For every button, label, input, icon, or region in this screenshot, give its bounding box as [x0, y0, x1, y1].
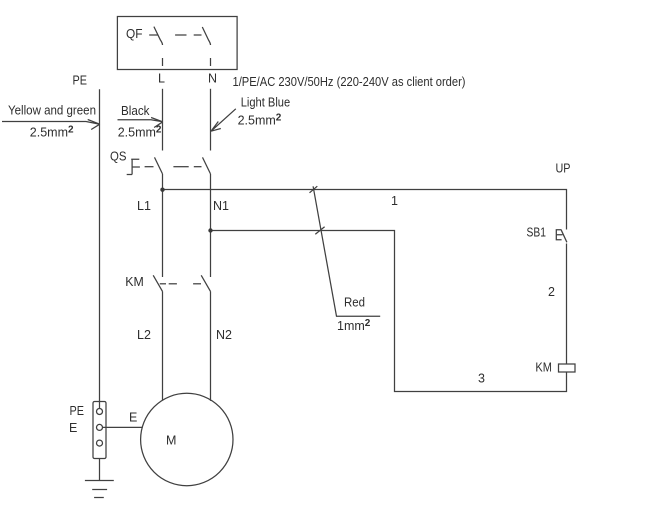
ground symbol bar 1	[85, 480, 114, 482]
svg-text:QF: QF	[126, 27, 143, 41]
svg-text:L1: L1	[137, 199, 151, 213]
red leader arrow tick on wire 1	[310, 186, 318, 193]
svg-text:N2: N2	[216, 328, 232, 342]
svg-text:M: M	[166, 434, 176, 448]
switch QS mechanical link dash 2	[173, 166, 188, 168]
leader arrow for Yellow and green label	[2, 120, 100, 130]
svg-text:UP: UP	[556, 162, 571, 176]
wire L middle segment	[162, 174, 164, 277]
svg-text:2.5mm2: 2.5mm2	[30, 125, 74, 140]
wire L2 to motor	[162, 291, 164, 400]
svg-text:KM: KM	[535, 361, 552, 375]
wire PE vertical	[99, 89, 101, 402]
svg-text:N: N	[208, 72, 217, 86]
PE lead into terminal block	[99, 402, 101, 409]
pushbutton SB1 actuator	[556, 230, 562, 240]
svg-text:E: E	[129, 411, 137, 425]
wire 3 from node N1 to coil return	[211, 231, 567, 392]
red leader arrow tick on wire 3	[315, 227, 324, 234]
leader arrow for Light Blue label	[211, 109, 236, 131]
wire N2 to motor	[210, 291, 212, 401]
switch QS pole L blade	[155, 157, 163, 174]
terminal block screw 3	[97, 440, 103, 446]
svg-text:L2: L2	[137, 328, 151, 342]
svg-text:2.5mm2: 2.5mm2	[118, 125, 162, 140]
wire N middle segment	[210, 174, 212, 277]
svg-text:N1: N1	[213, 199, 229, 213]
svg-text:E: E	[69, 421, 77, 435]
svg-text:KM: KM	[125, 275, 144, 289]
contactor KM mechanical link dash 2	[169, 283, 177, 285]
svg-text:2: 2	[548, 285, 555, 299]
svg-text:SB1: SB1	[527, 226, 547, 240]
node N1 junction dot	[208, 228, 212, 232]
wire E from terminal block to motor	[103, 426, 143, 428]
breaker QF pole L lead-in	[149, 34, 157, 36]
svg-text:Light Blue: Light Blue	[241, 95, 291, 109]
svg-text:Yellow and green: Yellow and green	[8, 104, 96, 118]
breaker QF pole L blade	[154, 27, 163, 45]
ground symbol bar 3	[94, 497, 104, 499]
svg-text:L: L	[158, 72, 165, 86]
contactor KM mechanical link dash 3	[193, 283, 201, 285]
contactor KM mechanical link dash 1	[160, 283, 166, 285]
breaker QF enclosure box	[117, 17, 237, 70]
coil KM rectangle	[559, 364, 576, 372]
wire 1 horizontal from node L1 to UP branch	[163, 190, 567, 230]
svg-text:1mm2: 1mm2	[337, 318, 371, 333]
svg-text:1: 1	[391, 194, 398, 208]
terminal block screw 1	[97, 409, 103, 415]
contactor KM pole L blade	[153, 275, 162, 291]
switch QS mechanical link dash 3	[194, 166, 202, 168]
breaker QF mechanical link dash 2	[194, 34, 202, 36]
svg-text:3: 3	[478, 372, 485, 386]
pushbutton SB1 blade	[561, 230, 567, 242]
svg-text:2.5mm2: 2.5mm2	[238, 112, 282, 127]
leader arrow for Black label	[118, 118, 163, 128]
svg-text:Black: Black	[121, 104, 150, 118]
breaker QF mechanical link dash 1	[175, 34, 186, 36]
node L1 junction dot	[160, 188, 164, 192]
ground symbol bar 2	[92, 489, 107, 491]
motor M circle	[141, 393, 233, 485]
svg-text:Red: Red	[344, 296, 365, 310]
svg-text:PE: PE	[70, 404, 85, 418]
breaker QF pole N lead-out dash	[210, 58, 212, 66]
svg-text:PE: PE	[73, 74, 88, 88]
wire L upper segment	[162, 89, 164, 151]
switch QS pole N blade	[203, 157, 211, 174]
switch QS mechanical link dash 1	[145, 166, 154, 168]
terminal block screw 2	[97, 424, 103, 430]
breaker QF pole L lead-out dash	[162, 58, 164, 66]
ground lead below terminal block	[99, 459, 101, 481]
red leader diagonal line with size callout	[313, 186, 380, 316]
wire 2 vertical to coil KM	[566, 244, 568, 365]
svg-text:1/PE/AC 230V/50Hz (220-240V as: 1/PE/AC 230V/50Hz (220-240V as client or…	[233, 75, 466, 89]
switch QS handle symbol	[127, 159, 140, 174]
svg-text:QS: QS	[110, 150, 127, 164]
terminal block PE/E	[93, 402, 106, 459]
breaker QF pole N blade	[202, 27, 210, 45]
contactor KM pole N blade	[201, 275, 210, 291]
wire N upper segment	[210, 89, 212, 151]
